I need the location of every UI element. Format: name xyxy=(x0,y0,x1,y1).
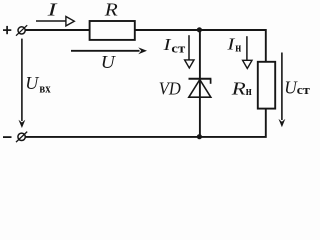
plus sign xyxy=(3,26,11,34)
terminal - (input) xyxy=(16,132,27,143)
svg-text:вх: вх xyxy=(39,81,51,96)
resistor Rn (load) xyxy=(258,62,275,109)
arrow Uvx (input voltage) xyxy=(19,39,26,128)
zener diode VD cathode bar xyxy=(189,79,212,84)
arrow Ist xyxy=(185,35,194,68)
minus sign xyxy=(3,136,12,138)
arrow U xyxy=(71,47,147,54)
wire diode branch (vertical) xyxy=(199,30,201,137)
node junction top xyxy=(197,27,202,32)
wire bottom xyxy=(25,109,266,137)
svg-text:R: R xyxy=(104,0,118,19)
svg-text:ст: ст xyxy=(297,82,311,97)
arrow I xyxy=(36,17,74,26)
svg-text:н: н xyxy=(235,40,241,55)
svg-text:U: U xyxy=(101,52,116,72)
wire top from R to corner and down to Rn xyxy=(135,30,266,62)
svg-text:VD: VD xyxy=(159,78,181,98)
wire top-left xyxy=(25,29,89,31)
resistor R xyxy=(90,21,135,40)
svg-text:U: U xyxy=(284,77,297,97)
svg-text:R: R xyxy=(231,79,246,99)
arrow Ust (output voltage) xyxy=(279,53,286,128)
arrow In xyxy=(243,36,252,68)
svg-text:U: U xyxy=(25,73,39,93)
node junction bottom xyxy=(197,134,202,139)
terminal + (input) xyxy=(16,25,27,36)
svg-text:н: н xyxy=(246,83,252,98)
svg-text:I: I xyxy=(46,0,58,20)
svg-text:ст: ст xyxy=(171,40,185,55)
zener diode VD triangle (anode) xyxy=(189,80,211,98)
